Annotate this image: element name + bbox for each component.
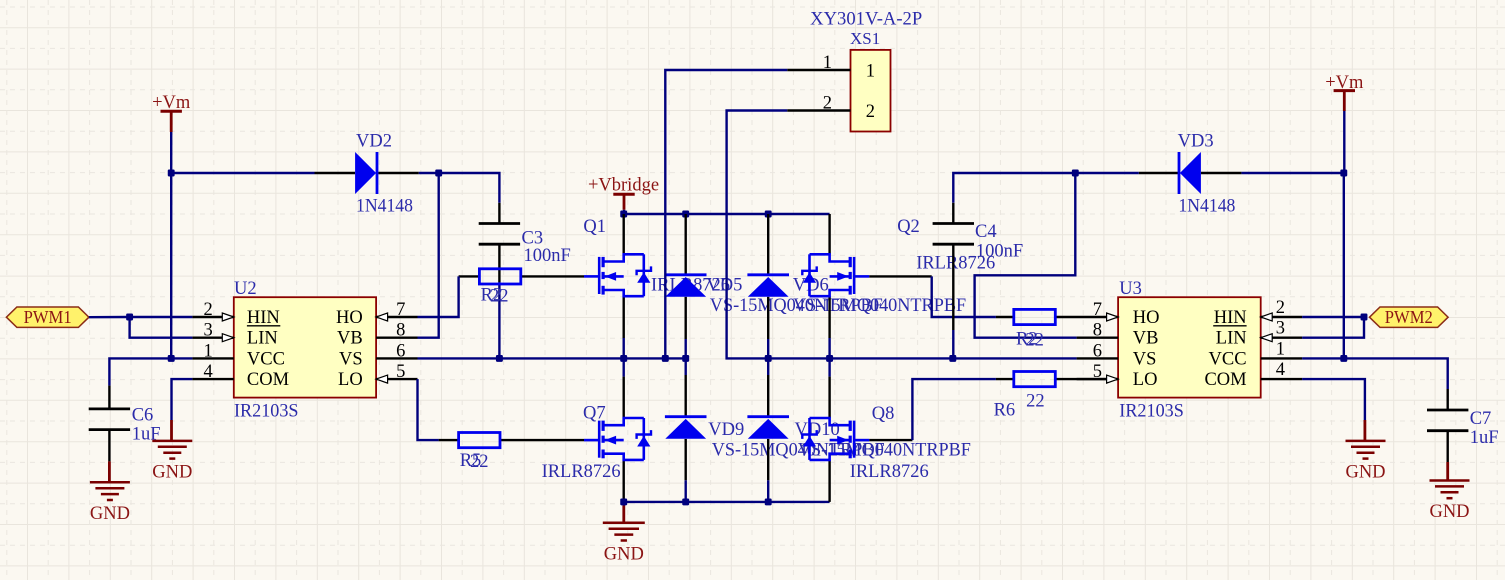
capacitor C6 — [89, 407, 130, 410]
wire +Vm to top rail — [170, 132, 172, 173]
svg-text:VD3: VD3 — [1178, 132, 1214, 152]
node PWM2 junction — [1361, 314, 1368, 321]
ground GND U2 COM — [152, 440, 192, 443]
transistor Q1 pins — [623, 214, 625, 254]
svg-text:4: 4 — [204, 362, 213, 382]
capacitor C7 — [1427, 409, 1468, 412]
node PWM1 junction — [126, 314, 133, 321]
wire VB node to C3 corner — [439, 173, 500, 203]
wire C3 to VS row — [498, 282, 500, 358]
svg-text:GND: GND — [152, 462, 192, 482]
svg-text:U2: U2 — [234, 279, 257, 299]
diode VD6 pins — [767, 214, 769, 275]
svg-text:GND: GND — [1429, 502, 1469, 522]
svg-text:1: 1 — [866, 62, 875, 82]
XS1 pin 2 — [787, 109, 850, 111]
U3 pin 5 LO — [1077, 378, 1119, 380]
node VD5/VS junction — [682, 355, 689, 362]
ground GND under C7 — [1430, 479, 1470, 482]
node VB-right junction — [1072, 170, 1079, 177]
svg-text:8: 8 — [396, 321, 405, 341]
svg-text:22: 22 — [1025, 330, 1044, 350]
wire +Vbridge rail — [624, 213, 830, 215]
svg-text:HIN: HIN — [247, 308, 280, 328]
svg-text:GND: GND — [604, 544, 644, 564]
node C3/VS junction — [496, 355, 503, 362]
capacitor C3 pins — [498, 203, 500, 224]
wire XS1 pin1 to node A — [665, 70, 787, 358]
svg-text:XS1: XS1 — [850, 29, 880, 48]
op-amp U2 IR2103S box — [234, 297, 376, 397]
ground GND under C6 — [90, 481, 130, 484]
svg-text:VS: VS — [339, 349, 363, 369]
wire COM pin4 right to ground — [1302, 379, 1365, 420]
resistor R6 — [1014, 372, 1056, 387]
svg-text:2: 2 — [866, 102, 875, 122]
svg-text:GND: GND — [1345, 462, 1385, 482]
wire VCC row to C7 — [1302, 358, 1448, 389]
node VCC-right junction — [1340, 355, 1347, 362]
transistor Q1 — [598, 257, 601, 294]
U2 pin 1 VCC — [192, 357, 233, 359]
capacitor C7 pins — [1446, 389, 1448, 410]
resistor R5 22 (lower left) — [459, 433, 500, 448]
node rail/VD5 junction — [682, 211, 689, 218]
svg-text:VB: VB — [337, 329, 363, 349]
svg-text:C6: C6 — [132, 406, 154, 426]
wire C7 to ground — [1446, 462, 1449, 481]
node VB-left junction — [435, 170, 442, 177]
wire Q2 gate to R3 — [869, 275, 931, 277]
diode VD10 — [747, 415, 789, 418]
svg-text:R6: R6 — [994, 401, 1016, 421]
svg-text:LO: LO — [338, 370, 363, 390]
U3 pin 3 LIN — [1261, 337, 1302, 339]
svg-text:+Vbridge: +Vbridge — [588, 176, 659, 196]
U3 pin 2 HIN — [1261, 316, 1302, 318]
node VD6/VS-right junction — [765, 355, 772, 362]
resistor R3 22 (upper right) — [1014, 309, 1056, 324]
diode VD3 — [1180, 152, 1201, 194]
diode VD2 — [355, 152, 376, 194]
node Q7/ground rail junction — [620, 498, 627, 505]
U3 pin 7 HO — [1107, 313, 1119, 321]
svg-text:100nF: 100nF — [976, 242, 1023, 262]
port PWM2 — [1370, 307, 1449, 327]
svg-text:1uF: 1uF — [1470, 428, 1499, 448]
wire VD2 to VB node — [419, 172, 439, 174]
svg-text:2: 2 — [1276, 298, 1285, 318]
svg-text:VCC: VCC — [247, 349, 285, 369]
resistor R5 22 (lower left) pins — [439, 439, 459, 441]
svg-text:HO: HO — [336, 308, 363, 328]
svg-text:1: 1 — [1276, 339, 1285, 359]
svg-text:Q2: Q2 — [897, 217, 920, 237]
U2 pin 4 COM — [192, 378, 233, 380]
wire C6 to ground — [108, 461, 111, 482]
svg-text:VCC: VCC — [1209, 349, 1247, 369]
wire Q8 gate to R6 — [869, 439, 912, 441]
svg-text:GND: GND — [90, 504, 130, 524]
wire VB-right vertical to pin8 — [975, 173, 1077, 338]
wire XS1 pin2 to node B — [727, 111, 1077, 359]
svg-text:Q8: Q8 — [872, 404, 895, 424]
node XS1-1/VS junction — [662, 355, 669, 362]
wire junction to LIN pin3 — [1302, 317, 1364, 338]
wire VB vertical to pin8 — [418, 173, 439, 338]
XS1 pin 1 — [787, 69, 850, 71]
wire COM pin4 to ground — [172, 379, 193, 420]
wire +Vm right down to VCC — [1343, 173, 1345, 358]
svg-text:LIN: LIN — [247, 329, 278, 349]
U3 pin 1 VCC — [1261, 357, 1302, 359]
node +Vm right junction — [1340, 170, 1347, 177]
diode VD5 pins — [685, 214, 687, 275]
node VCC junction left — [168, 355, 175, 362]
svg-text:22: 22 — [470, 452, 489, 472]
svg-text:VS-15MQ040NTRPBF: VS-15MQ040NTRPBF — [798, 440, 971, 460]
diode VD9 pins — [685, 358, 687, 375]
diode VD6 — [747, 273, 789, 276]
connector XS1 box — [851, 50, 891, 132]
svg-text:5: 5 — [1093, 362, 1102, 382]
svg-text:2: 2 — [823, 93, 832, 113]
U2 pin 5 LO — [376, 378, 417, 380]
wire LO pin5 to R5 — [418, 379, 439, 440]
U2 pin 6 VS — [376, 357, 417, 359]
svg-text:1: 1 — [823, 53, 832, 73]
svg-text:6: 6 — [1093, 341, 1102, 361]
svg-text:PWM1: PWM1 — [24, 307, 72, 327]
svg-text:1N4148: 1N4148 — [1178, 197, 1235, 217]
wire junction to HIN pin2 — [130, 316, 193, 318]
svg-text:7: 7 — [1093, 300, 1102, 320]
svg-text:VB: VB — [1133, 329, 1159, 349]
wire VS row left — [418, 357, 686, 359]
node +Vm/rail junction — [168, 170, 175, 177]
capacitor C4 pins — [952, 203, 954, 224]
resistor R6 pins — [996, 378, 1014, 380]
svg-text:4: 4 — [1276, 360, 1285, 380]
svg-text:3: 3 — [1276, 319, 1285, 339]
svg-text:5: 5 — [396, 362, 405, 382]
transistor Q8 pins — [828, 358, 830, 376]
node rail/VD9 junction — [682, 498, 689, 505]
svg-text:VD2: VD2 — [356, 132, 392, 152]
svg-text:VS-15MQ040NTRPBF: VS-15MQ040NTRPBF — [793, 296, 966, 316]
node Q1/VS junction — [620, 355, 627, 362]
node Q2/VS-right junction — [826, 355, 833, 362]
node +Vbridge rail junction — [620, 211, 627, 218]
transistor Q7 pins — [623, 358, 625, 376]
U3 pin 6 VS — [1077, 357, 1119, 359]
wire ground rail — [624, 501, 830, 503]
svg-text:XY301V-A-2P: XY301V-A-2P — [810, 10, 922, 30]
svg-text:Q7: Q7 — [583, 404, 606, 424]
svg-text:7: 7 — [396, 300, 405, 320]
diode VD10 pins — [767, 358, 769, 375]
svg-text:IRLR8726: IRLR8726 — [850, 462, 929, 482]
svg-text:VD5: VD5 — [706, 275, 742, 295]
U2 pin 8 VB — [376, 337, 417, 339]
wire rail to mid ground — [623, 502, 625, 506]
svg-text:VS: VS — [1133, 349, 1157, 369]
wire HIN pin2 to PWM2 — [1302, 316, 1364, 318]
diode VD3 pins — [1139, 172, 1179, 174]
wire +Vm down to VCC row — [170, 173, 172, 358]
svg-text:COM: COM — [247, 370, 289, 390]
diode VD2 pins — [315, 172, 356, 174]
port PWM1 — [6, 307, 89, 327]
diode VD5 — [665, 273, 707, 276]
svg-text:C7: C7 — [1470, 409, 1492, 429]
svg-text:2: 2 — [204, 300, 213, 320]
U2 pin 7 HO — [376, 316, 417, 318]
diode VD9 — [665, 415, 707, 418]
U2 pin 2 HIN — [192, 316, 233, 318]
capacitor C3 — [479, 222, 520, 225]
svg-text:1N4148: 1N4148 — [356, 197, 413, 217]
svg-text:6: 6 — [396, 341, 405, 361]
wire top rail left segment — [171, 172, 314, 174]
U3 pin 8 VB — [1077, 337, 1119, 339]
svg-text:3: 3 — [204, 321, 213, 341]
op-amp U3 IR2103S box — [1118, 297, 1261, 397]
svg-text:U3: U3 — [1119, 279, 1142, 299]
svg-text:8: 8 — [1093, 321, 1102, 341]
node rail/VD6 junction — [765, 211, 772, 218]
ground GND bridge — [603, 522, 645, 525]
transistor Q2 — [853, 257, 856, 294]
resistor R3 22 (upper right) pins — [996, 316, 1014, 318]
svg-text:COM: COM — [1204, 370, 1246, 390]
transistor Q8 — [853, 421, 856, 458]
wire junction down to LIN pin3 — [130, 317, 193, 338]
U3 pin 4 COM — [1261, 378, 1302, 380]
wire PWM1 to junction — [89, 316, 130, 319]
wire VCC row to C6 — [109, 358, 192, 385]
svg-text:VD9: VD9 — [708, 420, 744, 440]
svg-text:22: 22 — [490, 287, 509, 307]
svg-text:PWM2: PWM2 — [1385, 307, 1433, 327]
svg-text:Q1: Q1 — [583, 217, 606, 237]
svg-text:HO: HO — [1133, 308, 1160, 328]
wire VD3 to VB-right node — [1075, 172, 1139, 174]
svg-text:LO: LO — [1133, 370, 1158, 390]
wire R2 left pin to HO row — [418, 276, 459, 317]
capacitor C6 pins — [108, 386, 110, 409]
svg-text:IR2103S: IR2103S — [1119, 402, 1184, 422]
svg-text:22: 22 — [1026, 392, 1045, 412]
svg-text:HIN: HIN — [1214, 308, 1247, 328]
capacitor C4 — [933, 222, 974, 225]
wire top rail right — [1241, 172, 1343, 174]
node C4/VS-right junction — [949, 355, 956, 362]
svg-text:LIN: LIN — [1216, 329, 1247, 349]
wire C4 to VS-right row — [952, 330, 954, 358]
resistor R2 22 (upper left) pins — [459, 275, 480, 277]
wire VB-right to C4 — [953, 173, 1075, 203]
resistor R2 22 (upper left) — [479, 269, 520, 284]
node rail/VD10 junction — [765, 498, 772, 505]
transistor Q7 — [598, 421, 601, 458]
svg-text:IRLR8726: IRLR8726 — [542, 462, 621, 482]
svg-text:IR2103S: IR2103S — [234, 402, 299, 422]
svg-text:100nF: 100nF — [524, 246, 571, 266]
ground GND U3 COM — [1346, 440, 1386, 443]
svg-text:1: 1 — [204, 341, 213, 361]
transistor Q2 pins — [828, 214, 830, 254]
svg-text:C4: C4 — [975, 222, 997, 242]
U2 pin 3 LIN — [192, 337, 233, 339]
